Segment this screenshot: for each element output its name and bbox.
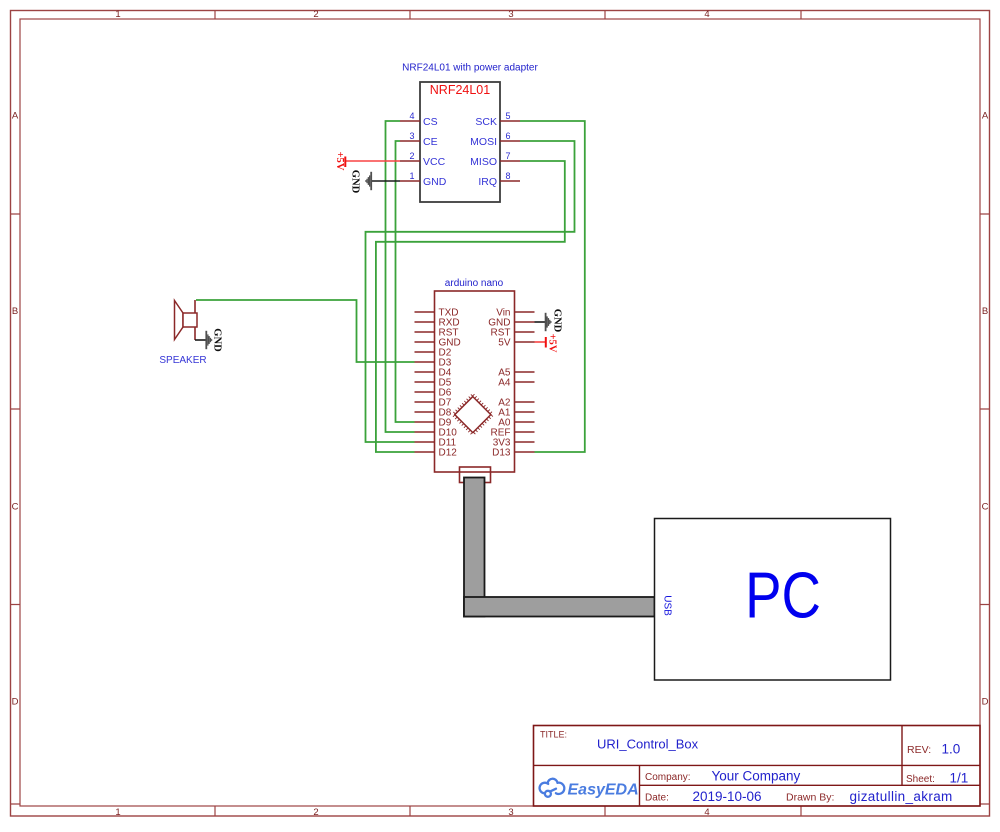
svg-text:gizatullin_akram: gizatullin_akram xyxy=(850,789,953,804)
wire +5V to VCC (red) xyxy=(346,160,400,162)
speaker pin bottom xyxy=(194,327,196,340)
pin D9 arduino left xyxy=(415,421,435,423)
pin RST arduino left xyxy=(415,331,435,333)
svg-text:1/1: 1/1 xyxy=(950,771,969,786)
pin A0 arduino right xyxy=(515,421,535,423)
module arduino nano box xyxy=(435,291,515,472)
pin D11 arduino left xyxy=(415,441,435,443)
svg-text:3: 3 xyxy=(409,131,414,141)
wire speaker to ground xyxy=(195,339,207,341)
wire MISO to D12 xyxy=(376,161,565,452)
svg-text:2: 2 xyxy=(313,807,318,818)
svg-text:5: 5 xyxy=(505,111,510,121)
frame column tick xyxy=(214,11,216,817)
svg-text:Company:: Company: xyxy=(645,772,691,783)
svg-text:CE: CE xyxy=(423,136,438,148)
wire CS to D10 xyxy=(386,121,415,432)
pin D7 arduino left xyxy=(415,401,435,403)
ground GND symbol at arduino xyxy=(545,313,547,331)
wire GND to NRF GND pin xyxy=(371,180,400,182)
pin 6 MOSI NRF24L01 xyxy=(500,140,520,142)
pin 3V3 arduino right xyxy=(515,441,535,443)
svg-text:3: 3 xyxy=(508,807,513,818)
pin 3 CE NRF24L01 xyxy=(400,140,420,142)
pin A1 arduino right xyxy=(515,411,535,413)
svg-text:MOSI: MOSI xyxy=(470,136,497,148)
pin 5 SCK NRF24L01 xyxy=(500,120,520,122)
svg-text:GND: GND xyxy=(551,309,562,333)
svg-text:PC: PC xyxy=(745,559,821,632)
svg-text:GND: GND xyxy=(211,328,222,352)
svg-text:USB: USB xyxy=(662,595,673,616)
svg-text:NRF24L01: NRF24L01 xyxy=(430,83,490,97)
USB cable vertical segment xyxy=(464,478,485,617)
svg-text:2019-10-06: 2019-10-06 xyxy=(693,789,762,804)
svg-text:+5V: +5V xyxy=(546,334,557,353)
svg-text:8: 8 xyxy=(505,171,510,181)
svg-text:6: 6 xyxy=(505,131,510,141)
svg-text:Date:: Date: xyxy=(645,793,669,804)
pin GND arduino left xyxy=(415,341,435,343)
svg-text:MISO: MISO xyxy=(470,156,497,168)
svg-text:1: 1 xyxy=(115,9,120,20)
svg-text:4: 4 xyxy=(704,9,709,20)
title block col line logo xyxy=(639,765,641,806)
pin D12 arduino left xyxy=(415,451,435,453)
svg-text:SCK: SCK xyxy=(475,116,497,128)
speaker LS1 symbol xyxy=(175,301,184,340)
ground GND symbol at speaker xyxy=(205,331,207,349)
svg-text:A: A xyxy=(12,110,19,121)
wire SCK to D13 xyxy=(520,121,585,452)
EasyEDA logo cloud xyxy=(540,779,565,797)
wire arduino GND pin to ground xyxy=(535,321,547,323)
pin REF arduino right xyxy=(515,431,535,433)
pin D4 arduino left xyxy=(415,371,435,373)
frame column tick xyxy=(604,11,606,817)
svg-text:arduino nano: arduino nano xyxy=(445,278,504,289)
title block row line 1 xyxy=(534,764,981,766)
wire CE to D9 xyxy=(396,141,415,422)
svg-text:D13: D13 xyxy=(492,448,511,459)
svg-text:1: 1 xyxy=(115,807,120,818)
pin 8 IRQ NRF24L01 xyxy=(500,180,520,182)
pin GND arduino right xyxy=(515,321,535,323)
svg-text:5V: 5V xyxy=(498,338,511,349)
svg-text:NRF24L01 with power adapter: NRF24L01 with power adapter xyxy=(402,63,538,74)
svg-text:A4: A4 xyxy=(498,378,511,389)
svg-text:+5V: +5V xyxy=(334,152,345,171)
svg-text:URI_Control_Box: URI_Control_Box xyxy=(597,737,699,752)
USB cable horizontal segment xyxy=(464,597,655,617)
svg-text:D: D xyxy=(982,696,989,707)
pin 5V arduino right xyxy=(515,341,535,343)
frame row tick xyxy=(11,604,991,606)
title block outline xyxy=(534,726,981,807)
svg-text:C: C xyxy=(982,501,989,512)
speaker pin top xyxy=(194,300,196,313)
svg-text:4: 4 xyxy=(409,111,414,121)
svg-text:GND: GND xyxy=(349,170,360,194)
svg-text:A: A xyxy=(982,110,989,121)
svg-text:B: B xyxy=(12,306,18,317)
frame band closing ticks xyxy=(11,803,991,805)
title block row line 2 xyxy=(640,784,981,786)
svg-text:SPEAKER: SPEAKER xyxy=(159,355,206,366)
arduino USB connector rect xyxy=(460,467,491,483)
pin A2 arduino right xyxy=(515,401,535,403)
pin D2 arduino left xyxy=(415,351,435,353)
svg-text:B: B xyxy=(982,306,988,317)
svg-text:GND: GND xyxy=(423,176,447,188)
wire arduino 5V pin to +5V (red) xyxy=(535,341,547,343)
svg-text:Sheet:: Sheet: xyxy=(906,774,935,785)
pin A4 arduino right xyxy=(515,381,535,383)
pin 4 CS NRF24L01 xyxy=(400,120,420,122)
pin D13 arduino right xyxy=(515,451,535,453)
pin D3 arduino left xyxy=(415,361,435,363)
frame row tick xyxy=(11,213,991,215)
wire speaker to D3 xyxy=(196,300,415,362)
pin 1 GND NRF24L01 xyxy=(400,180,420,182)
wire MOSI to D11 xyxy=(366,141,575,442)
svg-text:TITLE:: TITLE: xyxy=(540,730,567,740)
svg-text:3: 3 xyxy=(508,9,513,20)
svg-text:CS: CS xyxy=(423,116,438,128)
frame column tick xyxy=(800,11,802,817)
svg-text:2: 2 xyxy=(409,151,414,161)
svg-text:IRQ: IRQ xyxy=(478,176,497,188)
frame row tick xyxy=(11,408,991,410)
svg-text:C: C xyxy=(12,501,19,512)
svg-text:2: 2 xyxy=(313,9,318,20)
power +5V symbol at NRF xyxy=(344,157,346,168)
pin A5 arduino right xyxy=(515,371,535,373)
ground GND symbol at NRF xyxy=(370,172,372,190)
pin D10 arduino left xyxy=(415,431,435,433)
pin RST arduino right xyxy=(515,331,535,333)
arduino chip diamond with pin ticks xyxy=(453,395,492,434)
svg-text:7: 7 xyxy=(505,151,510,161)
svg-text:REV:: REV: xyxy=(907,744,931,756)
svg-text:1.0: 1.0 xyxy=(942,742,961,757)
PC box xyxy=(655,519,891,681)
frame column tick xyxy=(409,11,411,817)
svg-text:Your Company: Your Company xyxy=(712,769,801,784)
svg-text:EasyEDA: EasyEDA xyxy=(568,782,639,799)
pin TXD arduino left xyxy=(415,311,435,313)
pin 2 VCC NRF24L01 xyxy=(400,160,420,162)
svg-text:D: D xyxy=(12,696,19,707)
svg-text:D12: D12 xyxy=(439,448,458,459)
svg-text:Drawn By:: Drawn By: xyxy=(786,792,834,804)
svg-text:VCC: VCC xyxy=(423,156,446,168)
title block col line rev xyxy=(901,726,903,786)
pin 7 MISO NRF24L01 xyxy=(500,160,520,162)
svg-text:4: 4 xyxy=(704,807,709,818)
module NRF24L01 box xyxy=(420,82,500,202)
pin D8 arduino left xyxy=(415,411,435,413)
pin D6 arduino left xyxy=(415,391,435,393)
pin Vin arduino right xyxy=(515,311,535,313)
svg-text:1: 1 xyxy=(409,171,414,181)
pin RXD arduino left xyxy=(415,321,435,323)
pin D5 arduino left xyxy=(415,381,435,383)
power +5V symbol at arduino xyxy=(545,337,547,348)
